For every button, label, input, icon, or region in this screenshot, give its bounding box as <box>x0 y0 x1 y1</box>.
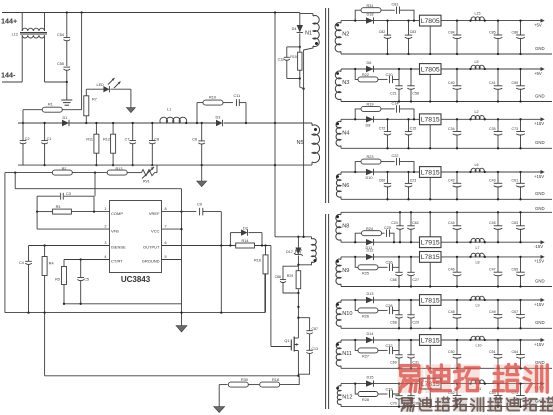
svg-text:C81: C81 <box>392 3 399 7</box>
svg-text:8: 8 <box>165 207 167 211</box>
diode D11 <box>366 239 374 245</box>
capacitor C41 <box>497 69 499 86</box>
svg-text:R7: R7 <box>92 98 97 102</box>
diode D13 <box>366 297 374 303</box>
svg-text:C48: C48 <box>448 310 455 314</box>
capacitor C8 <box>151 123 153 141</box>
resistor R12 <box>112 123 114 134</box>
svg-text:C82: C82 <box>379 30 386 34</box>
resistor R25 snubber <box>355 257 358 267</box>
svg-text:144+: 144+ <box>1 17 17 26</box>
svg-text:C69: C69 <box>390 361 397 365</box>
capacitor C14 snubber <box>396 105 398 112</box>
svg-text:N6: N6 <box>342 183 349 189</box>
capacitor C69 <box>398 340 400 355</box>
svg-text:R30: R30 <box>241 378 248 382</box>
wire N1 bottom vertical to N7 top <box>303 89 305 237</box>
svg-text:C6: C6 <box>192 138 197 142</box>
wire N11 output row top <box>341 339 420 341</box>
svg-text:+5V: +5V <box>534 22 542 27</box>
svg-text:L7: L7 <box>476 246 480 250</box>
junction bus R7 <box>85 122 87 124</box>
svg-text:C62: C62 <box>412 221 419 225</box>
svg-text:GND: GND <box>535 140 545 145</box>
capacitor C83 <box>408 21 410 35</box>
capacitor C6 <box>201 123 203 141</box>
svg-text:C72: C72 <box>379 127 386 131</box>
svg-text:GND: GND <box>535 191 545 196</box>
capacitor C49 <box>497 300 499 315</box>
svg-text:C11: C11 <box>234 94 241 98</box>
junction R2 R13 divider tap <box>94 171 96 173</box>
polarity dot N7 <box>314 259 317 262</box>
capacitor C9 <box>199 208 201 216</box>
svg-text:ISENSE: ISENSE <box>111 245 126 250</box>
diode D12 <box>366 254 374 260</box>
svg-text:C25: C25 <box>384 226 391 230</box>
varistor RV1 <box>139 172 142 174</box>
capacitor C32 snubber <box>389 347 391 354</box>
svg-text:C34: C34 <box>448 127 455 131</box>
capacitor C86 <box>520 21 522 35</box>
resistor R13 <box>107 170 127 175</box>
svg-text:VFB: VFB <box>111 228 119 233</box>
svg-text:C21: C21 <box>390 92 397 96</box>
capacitor C50 <box>456 340 458 355</box>
capacitor C31 <box>410 340 412 355</box>
svg-text:C85: C85 <box>489 30 496 34</box>
wire pin8 VREF to C9 <box>162 211 197 213</box>
op-amp U1 UC3843 body <box>110 201 162 273</box>
inductor L7 <box>471 238 484 242</box>
svg-text:D4: D4 <box>292 27 297 31</box>
svg-text:C65: C65 <box>512 268 519 272</box>
capacitor C64 <box>520 340 522 355</box>
junction pin4 C5 <box>80 258 82 260</box>
capacitor C67 <box>520 300 522 315</box>
svg-text:C50: C50 <box>448 350 455 354</box>
svg-text:C23: C23 <box>410 178 417 182</box>
node output +15V N11 <box>541 338 545 342</box>
wire N3 output row top <box>341 68 420 70</box>
capacitor C62 <box>410 212 412 226</box>
junction pin8 vertical <box>180 210 182 212</box>
svg-text:C41: C41 <box>489 81 496 85</box>
svg-text:C66: C66 <box>390 278 397 282</box>
svg-text:C45: C45 <box>489 221 496 225</box>
resistor R18 <box>260 382 280 387</box>
transformer N6 secondary winding <box>336 174 341 197</box>
svg-text:C20: C20 <box>386 73 393 77</box>
junction R29 bottom <box>297 292 299 294</box>
capacitor C27 <box>410 257 412 272</box>
svg-text:L1: L1 <box>167 108 171 112</box>
svg-text:+15V: +15V <box>534 121 544 126</box>
junction gate node R16 <box>264 244 266 246</box>
svg-text:C51: C51 <box>489 350 496 354</box>
capacitor C85 <box>497 21 499 35</box>
diode D2 bypass <box>229 233 231 246</box>
svg-text:C26: C26 <box>386 261 393 265</box>
wire 144+ to L12 <box>2 12 22 14</box>
diode D15 <box>366 380 374 386</box>
svg-text:C68: C68 <box>390 321 397 325</box>
ground arrow C6 <box>201 165 203 181</box>
inductor L15 <box>471 17 484 21</box>
svg-text:GND: GND <box>535 360 545 365</box>
svg-text:L9: L9 <box>476 304 480 308</box>
svg-text:L2: L2 <box>475 110 479 114</box>
regulator L7805 N3 <box>420 64 442 75</box>
svg-text:RV1: RV1 <box>143 180 150 184</box>
wire R5 C5 common return <box>64 303 182 305</box>
node output +15V N12 <box>541 382 545 386</box>
svg-text:2: 2 <box>104 225 106 229</box>
capacitor C84 <box>456 21 458 35</box>
polarity dot N8 <box>336 215 339 218</box>
wire R1 left down to bus <box>22 110 24 123</box>
svg-text:R1: R1 <box>48 103 53 107</box>
svg-text:C58: C58 <box>412 92 419 96</box>
junction pin3 R4 <box>43 244 45 246</box>
svg-text:D1: D1 <box>63 116 68 120</box>
svg-text:C12: C12 <box>278 58 284 62</box>
svg-text:N4: N4 <box>342 130 349 136</box>
wire regulator ground pin N8 <box>429 212 431 237</box>
wire pin3 ISENSE <box>29 245 110 247</box>
capacitor C55 <box>64 66 71 68</box>
junction N7 bottom node <box>297 264 299 266</box>
svg-text:C44: C44 <box>448 221 455 225</box>
inductor L2 <box>471 116 484 120</box>
svg-text:R28: R28 <box>362 398 369 402</box>
svg-text:N9: N9 <box>342 268 349 274</box>
capacitor C15 <box>408 119 410 131</box>
svg-text:L7815: L7815 <box>421 117 440 124</box>
svg-text:R2: R2 <box>62 167 67 171</box>
polarity dot N10 <box>336 303 339 306</box>
transistor Q1 MOSFET <box>294 337 298 339</box>
junction pin1 loop <box>36 210 38 212</box>
capacitor C48 <box>456 300 458 315</box>
wire regulator ground pin N6 <box>429 177 431 199</box>
svg-text:C70: C70 <box>390 402 397 406</box>
svg-text:R26: R26 <box>362 315 369 319</box>
svg-text:CT/RT: CT/RT <box>111 259 123 264</box>
capacitor C52 <box>456 384 458 396</box>
junction bus right <box>274 122 276 124</box>
transformer core bottom section <box>325 214 327 409</box>
svg-text:R14: R14 <box>242 239 249 243</box>
resistor R14 <box>236 243 255 248</box>
transformer N5 primary winding <box>312 125 320 163</box>
watermark line1 red logo text <box>398 364 550 393</box>
ground earth below C55 <box>66 82 68 97</box>
transformer N12 secondary winding <box>337 386 341 405</box>
svg-text:D14: D14 <box>367 332 374 336</box>
capacitor C28 snubber <box>389 307 391 314</box>
svg-text:4: 4 <box>104 255 106 259</box>
svg-text:N8: N8 <box>342 223 349 229</box>
capacitor C44 <box>456 212 458 226</box>
resistor R28 snubber <box>355 384 358 394</box>
svg-text:C55: C55 <box>57 62 64 66</box>
polarity dot N11 <box>336 343 339 346</box>
svg-text:N10: N10 <box>342 311 352 317</box>
inductor L1 <box>160 117 187 123</box>
svg-text:R5: R5 <box>55 278 60 282</box>
wire L12 bottom to C55 junction <box>45 81 67 83</box>
svg-text:C86: C86 <box>275 275 281 279</box>
svg-text:C46: C46 <box>448 268 455 272</box>
resistor R26 snubber <box>355 300 358 310</box>
svg-text:C35: C35 <box>489 127 496 131</box>
capacitor C20 snubber <box>389 76 391 83</box>
capacitor C25 snubber <box>386 230 388 237</box>
svg-text:GND: GND <box>535 46 545 51</box>
node output +15V N9 <box>541 255 545 259</box>
svg-text:+15V: +15V <box>534 342 544 347</box>
polarity dot N9 <box>336 260 339 263</box>
resistor R16 <box>265 246 267 256</box>
resistor R15 snubber <box>299 47 301 52</box>
polarity dot N4 <box>336 122 339 125</box>
capacitor C33 snubber <box>389 390 391 397</box>
LED D LED with arrows <box>86 88 103 90</box>
wire RV1 to lower rail <box>155 172 158 174</box>
svg-text:C4: C4 <box>19 261 24 265</box>
resistor R23 snubber <box>355 162 361 172</box>
svg-text:L5: L5 <box>475 60 479 64</box>
svg-text:C5: C5 <box>84 278 89 282</box>
junction bus R1/C2 <box>22 122 24 124</box>
svg-text:C73: C73 <box>512 127 519 131</box>
junction top rail R1 drop <box>80 11 82 13</box>
wire pin1 COMP <box>37 211 53 213</box>
svg-text:C29: C29 <box>412 321 419 325</box>
svg-text:L10: L10 <box>476 344 482 348</box>
svg-text:C1: C1 <box>47 137 52 141</box>
capacitor C26 snubber <box>389 264 391 271</box>
transformer N4 secondary winding <box>336 121 341 146</box>
capacitor C43 <box>497 172 499 183</box>
capacitor C63 <box>520 212 522 226</box>
ground arrow LED <box>130 89 132 107</box>
capacitor C82 <box>387 21 389 35</box>
capacitor C1 <box>44 123 46 141</box>
transformer N8 secondary winding <box>336 214 341 240</box>
capacitor C4 <box>28 246 30 262</box>
resistor R19 snubber <box>355 109 361 119</box>
wire N12 output row top <box>341 383 420 385</box>
inductor L6 <box>471 168 484 172</box>
wire N9 output row top <box>341 256 420 258</box>
wire top rail <box>22 12 300 14</box>
svg-text:VREF: VREF <box>149 211 160 216</box>
svg-text:L15: L15 <box>475 11 481 15</box>
svg-text:C86: C86 <box>512 30 519 34</box>
svg-text:3: 3 <box>104 241 106 245</box>
polarity dot N12 <box>336 387 339 390</box>
svg-text:1: 1 <box>104 207 106 211</box>
regulator L7815 N4 <box>420 114 442 125</box>
node output +5V N3 <box>541 67 545 71</box>
resistor R24 snubber <box>355 233 361 242</box>
wire N2 after regulator <box>441 20 541 22</box>
svg-text:D10: D10 <box>366 176 373 180</box>
resistor R10 snubber <box>196 103 198 123</box>
diode D3 <box>216 120 223 126</box>
svg-text:GND: GND <box>535 93 545 98</box>
transformer N1 primary winding <box>300 13 313 15</box>
capacitor C70 <box>398 384 400 396</box>
wire N12 output row bottom <box>341 406 552 408</box>
svg-text:+15V: +15V <box>534 174 544 179</box>
regulator L7815 N6 <box>420 167 442 178</box>
capacitor C73 <box>520 119 522 131</box>
svg-text:R23: R23 <box>367 155 374 159</box>
wire N8 output row bottom <box>341 241 420 243</box>
svg-text:D8: D8 <box>366 123 371 127</box>
regulator L7805 N2 <box>420 15 442 26</box>
transformer N10 secondary winding <box>336 302 341 326</box>
transformer core top section <box>325 8 327 203</box>
capacitor C71 <box>520 384 522 396</box>
svg-text:C32: C32 <box>386 344 393 348</box>
capacitor C7 <box>132 123 134 141</box>
wire regulator ground pin N2 <box>429 26 431 54</box>
wire top rail down to R1 <box>81 13 83 110</box>
ground arrow main <box>176 326 187 333</box>
wire regulator ground pin N11 <box>429 345 431 368</box>
resistor R22 snubber <box>355 69 358 79</box>
wire regulator ground pin N10 <box>429 305 431 328</box>
diode D6 <box>366 66 374 72</box>
wire N3 after regulator <box>441 68 541 70</box>
svg-text:D12: D12 <box>367 249 374 253</box>
diode D14 <box>366 337 374 343</box>
wire ground rail <box>5 312 265 314</box>
capacitor C45 <box>497 212 499 226</box>
junction top rail C54 <box>66 11 68 13</box>
svg-text:UC3843: UC3843 <box>121 275 151 284</box>
capacitor C61 <box>520 172 522 183</box>
svg-text:R19: R19 <box>367 103 374 107</box>
node output +15V N10 <box>541 298 545 302</box>
wire regulator ground pin N3 <box>429 74 431 101</box>
capacitor C51 <box>497 340 499 355</box>
wire N8 output row top <box>341 211 552 213</box>
svg-text:D3: D3 <box>216 116 221 120</box>
regulator L7815 N9 <box>420 252 442 263</box>
wire N8 after regulator <box>441 241 541 243</box>
polarity dot N3 <box>336 72 339 75</box>
svg-text:+15V: +15V <box>534 302 544 307</box>
svg-text:L7815: L7815 <box>421 337 440 344</box>
wire regulator ground pin N9 <box>429 262 431 286</box>
svg-text:C27: C27 <box>412 278 419 282</box>
resistor R1 <box>23 109 42 111</box>
capacitor C60 <box>387 172 389 183</box>
svg-text:L12: L12 <box>12 33 18 37</box>
wire divider tap to VFB loop <box>94 173 96 197</box>
capacitor C81 snubber <box>396 7 398 14</box>
wire N9 after regulator <box>441 256 541 258</box>
inductor L11 <box>471 380 484 384</box>
inductor L10 <box>471 336 484 340</box>
capacitor C36 <box>410 384 412 396</box>
resistor R7 <box>84 96 89 116</box>
svg-text:C9: C9 <box>197 203 202 207</box>
capacitor C53 <box>497 384 499 396</box>
svg-text:C61: C61 <box>512 179 519 183</box>
junction D4 snubber top <box>299 46 301 48</box>
wire bus vertical to N7 <box>274 13 276 237</box>
svg-text:C7: C7 <box>125 138 130 142</box>
svg-text:R25: R25 <box>362 272 369 276</box>
diode D1 <box>62 120 69 126</box>
inductor L5 <box>471 65 484 69</box>
svg-text:144-: 144- <box>1 71 16 80</box>
svg-text:C47: C47 <box>489 268 496 272</box>
resistor R4 <box>44 246 46 257</box>
junction snubber bottom <box>299 77 301 79</box>
wire N11 output row bottom <box>341 367 552 369</box>
svg-text:R10: R10 <box>209 95 216 99</box>
node output +15V N6 <box>541 170 545 174</box>
svg-text:C28: C28 <box>386 304 393 308</box>
wire C9 down to ground rail <box>220 212 222 313</box>
wire N10 output row top <box>341 299 420 301</box>
svg-text:C3: C3 <box>66 192 71 196</box>
svg-text:C43: C43 <box>489 179 496 183</box>
resistor R31 snubber <box>355 10 361 20</box>
svg-text:C83: C83 <box>410 30 417 34</box>
capacitor C42 <box>456 172 458 183</box>
wire pin4 CT/RT <box>64 259 110 261</box>
junction C55 bottom <box>66 81 68 83</box>
svg-text:R24: R24 <box>366 227 373 231</box>
wire VREF vertical <box>181 189 183 326</box>
wire N3 output row bottom <box>341 101 552 103</box>
wire N4 output row top <box>341 118 420 120</box>
svg-text:D13: D13 <box>367 292 374 296</box>
wire N10 output row bottom <box>341 327 552 329</box>
capacitor C11 <box>236 99 238 106</box>
svg-text:R18: R18 <box>272 378 279 382</box>
capacitor C22 snubber <box>396 158 398 165</box>
svg-text:D17: D17 <box>286 250 293 254</box>
capacitor C58 <box>410 69 412 86</box>
svg-text:D2: D2 <box>243 227 248 231</box>
wire main bus <box>18 122 216 124</box>
wire left vertical from R2 row <box>4 173 6 313</box>
svg-text:D15: D15 <box>367 375 374 379</box>
wire N6 output row top <box>341 171 420 173</box>
junction source bottom rail <box>297 375 299 377</box>
svg-text:R11: R11 <box>86 138 93 142</box>
capacitor C34 <box>456 119 458 131</box>
svg-text:L7805: L7805 <box>421 66 440 73</box>
svg-text:LED: LED <box>97 83 105 87</box>
transformer N3 secondary winding <box>335 71 341 99</box>
svg-text:N3: N3 <box>342 80 349 86</box>
inductor L12 common-mode choke <box>21 13 23 32</box>
svg-text:L7805: L7805 <box>421 18 440 25</box>
capacitor C5 <box>80 260 82 278</box>
svg-text:GND: GND <box>535 206 545 211</box>
diode D10 <box>366 169 374 175</box>
